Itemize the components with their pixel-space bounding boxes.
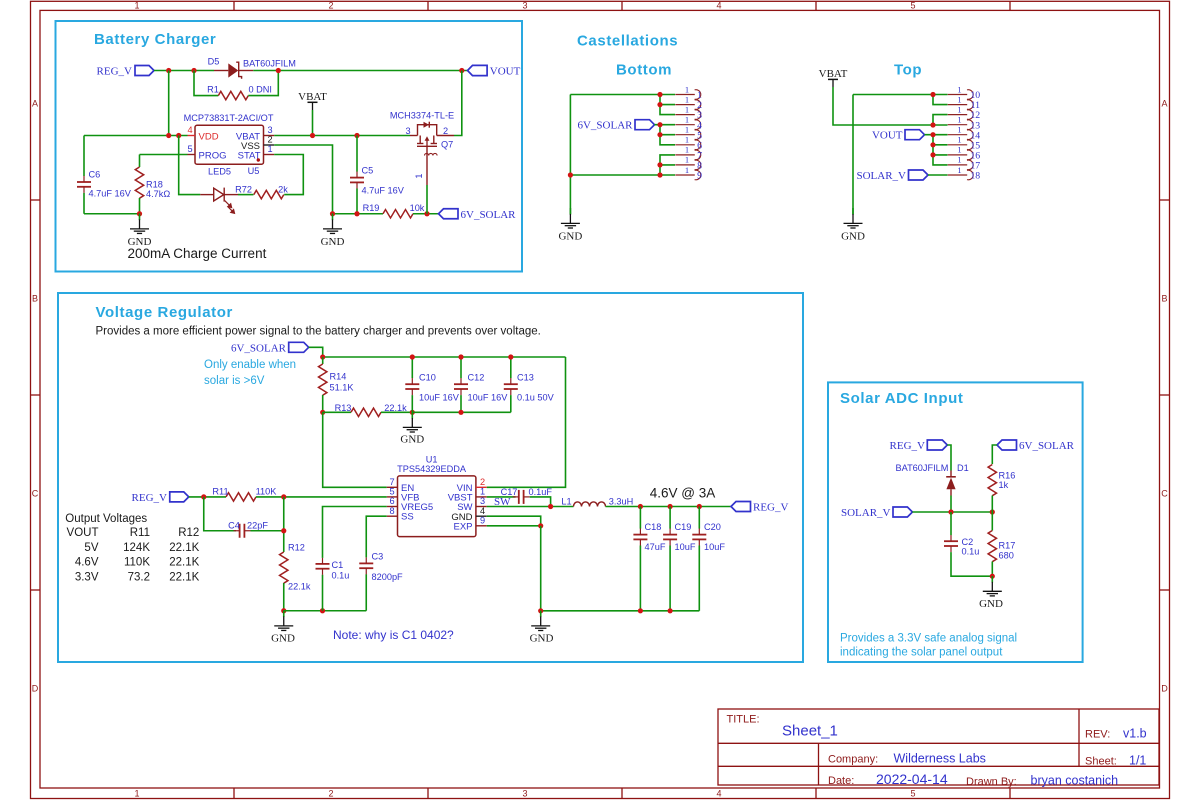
svg-text:1: 1 (685, 115, 689, 125)
pin 4 VDD of U5 (187, 125, 218, 142)
svg-text:GND: GND (271, 633, 295, 645)
node junction C19 bottom (668, 608, 673, 613)
wire REG_V to R11 (189, 496, 226, 498)
connector pin 16 top (948, 145, 981, 162)
wire REG_V to D5 (154, 70, 214, 72)
title block (718, 709, 1159, 785)
svg-text:0.1u 50V: 0.1u 50V (517, 393, 555, 403)
svg-text:5: 5 (389, 487, 394, 497)
svg-text:R1: R1 (207, 85, 219, 95)
node junction REG_V C4 branch (201, 494, 206, 499)
svg-text:4: 4 (716, 789, 721, 799)
wire D1 to SOLAR_V node (950, 496, 952, 513)
pin 6 VREG5 of U1 (387, 496, 434, 513)
wire REG_V down to VDD rail (168, 71, 170, 136)
pin 2 VSS of U5 (241, 135, 274, 152)
node junction R12 top (281, 528, 286, 533)
node junction gate drop (424, 211, 429, 216)
ground GND1 (128, 213, 152, 248)
op-amp U5 MCP73831 body (184, 113, 274, 176)
net flag VOUT castellation (872, 130, 925, 142)
ground GND solar (979, 576, 1003, 610)
svg-text:B: B (32, 294, 38, 304)
wire D5 to VOUT (253, 70, 467, 72)
wire bottom pins 4-6 bus (655, 122, 676, 145)
wire bottom pins 1-3 bus (657, 92, 675, 115)
svg-text:18: 18 (970, 171, 980, 182)
node junction GND2 (330, 211, 335, 216)
svg-text:R17: R17 (999, 541, 1016, 551)
node junction C12 top (458, 354, 463, 359)
node junction VFB divider (281, 494, 286, 499)
svg-text:1: 1 (480, 487, 485, 497)
svg-text:REG_V: REG_V (753, 502, 789, 514)
wire C4 to R12 node (251, 497, 284, 552)
connector pin 5 bottom (675, 125, 702, 142)
connector pin 6 bottom (675, 135, 702, 152)
capacitor C20 10uF (692, 507, 725, 611)
svg-text:1: 1 (134, 1, 139, 11)
transistor Q2 MCH3374 (390, 111, 454, 186)
capacitor C3 8200pF (359, 516, 403, 611)
svg-text:1: 1 (957, 165, 961, 175)
svg-text:3.3uH: 3.3uH (609, 497, 634, 507)
node junction at R1 branch right (276, 68, 281, 73)
svg-text:C13: C13 (517, 373, 534, 383)
ground GND2 (321, 213, 345, 248)
net flag REG_V regulator output (731, 502, 789, 514)
wire left gnd rail (284, 610, 367, 612)
wire Q7 gate to junction (426, 185, 428, 214)
svg-text:1: 1 (685, 94, 689, 104)
inductor L1 3.3uH (561, 497, 633, 507)
svg-text:VBAT: VBAT (819, 68, 848, 80)
wire 6V_SOLAR to R16 (992, 445, 997, 464)
svg-text:3: 3 (405, 126, 410, 136)
node junction at VOUT branch (459, 68, 464, 73)
node junction EXP (538, 523, 543, 528)
net flag 6V_SOLAR battery (439, 209, 517, 221)
svg-text:MCH3374-TL-E: MCH3374-TL-E (390, 111, 454, 121)
resistor R12 22.1k (280, 543, 311, 611)
svg-text:6V_SOLAR: 6V_SOLAR (231, 342, 287, 354)
svg-text:VOUT: VOUT (872, 130, 903, 142)
resistor R13 22.1k (323, 403, 413, 416)
svg-text:5: 5 (910, 1, 915, 11)
svg-text:Sheet_1: Sheet_1 (782, 723, 838, 740)
resistor R1 0 DNI (207, 85, 272, 100)
svg-text:3: 3 (480, 496, 485, 506)
wire divider to EN (323, 412, 387, 487)
wire R11 to VFB (256, 496, 387, 498)
svg-text:VBAT: VBAT (298, 91, 327, 103)
ground GND bottom castellation (558, 208, 582, 243)
net flag VOUT (468, 65, 521, 77)
wire LED to R72 (238, 194, 254, 196)
resistor R72 2k (235, 185, 288, 199)
svg-text:VOUT: VOUT (490, 66, 521, 78)
svg-text:4: 4 (187, 125, 192, 135)
svg-text:C3: C3 (372, 552, 384, 562)
node junction VBAT drop (310, 133, 315, 138)
svg-text:10k: 10k (410, 203, 425, 213)
wire bottom connector left bus (570, 95, 675, 215)
svg-text:R12: R12 (288, 543, 305, 553)
svg-text:0.1u: 0.1u (332, 571, 350, 581)
svg-text:1: 1 (685, 135, 689, 145)
svg-text:GND: GND (558, 231, 582, 243)
svg-text:LED5: LED5 (208, 167, 231, 177)
node junction at REG_V branch (166, 68, 171, 73)
svg-text:GND: GND (530, 633, 554, 645)
svg-text:Note: why is C1 0402?: Note: why is C1 0402? (333, 628, 454, 642)
svg-text:6: 6 (389, 496, 394, 506)
net flag SOLAR_V solar (841, 507, 912, 519)
pin 9 EXP of U1 (453, 516, 486, 533)
resistor R17 680 (988, 512, 1015, 576)
capacitor C12 (454, 357, 508, 412)
wire VDD rail (84, 135, 188, 137)
wire VBAT to pin13 (833, 87, 933, 125)
Castellations heading (577, 33, 678, 50)
wire C17 to SW node (530, 497, 551, 507)
svg-text:0.1u: 0.1u (962, 547, 980, 557)
svg-text:5: 5 (187, 144, 192, 154)
capacitor C6 (77, 136, 132, 214)
svg-text:Battery Charger: Battery Charger (94, 31, 216, 48)
node junction C20 top (697, 504, 702, 509)
svg-text:1: 1 (685, 155, 689, 165)
svg-text:2: 2 (268, 135, 273, 145)
svg-text:R14: R14 (330, 372, 347, 382)
svg-text:22.1k: 22.1k (288, 582, 311, 592)
svg-text:22pF: 22pF (247, 520, 268, 530)
svg-text:22.1K: 22.1K (169, 542, 199, 554)
svg-text:110K: 110K (124, 557, 150, 569)
svg-text:1: 1 (685, 165, 689, 175)
wire Q7 source to VOUT rail (454, 71, 462, 136)
power symbol VBAT castellation (819, 68, 848, 87)
Solar ADC Input section box (828, 382, 1083, 662)
svg-text:Bottom: Bottom (616, 62, 672, 79)
svg-text:R12: R12 (178, 527, 199, 539)
wire PROG to R18 (140, 154, 188, 156)
text output voltages table (65, 513, 199, 584)
wire R1 branch left (194, 71, 218, 96)
wire VBAT rail right (274, 135, 410, 137)
svg-text:C: C (1161, 489, 1168, 499)
svg-text:Only enable when: Only enable when (204, 359, 296, 371)
svg-text:GND: GND (841, 231, 865, 243)
pin 5 VFB of U1 (387, 487, 420, 504)
node junction C18 bottom (638, 608, 643, 613)
svg-text:1: 1 (957, 84, 961, 94)
net flag REG_V (97, 66, 154, 78)
svg-text:MCP73831T-2ACI/OT: MCP73831T-2ACI/OT (184, 113, 274, 123)
svg-text:4.7kΩ: 4.7kΩ (146, 189, 170, 199)
svg-text:C19: C19 (675, 522, 692, 532)
svg-text:Drawn By:: Drawn By: (966, 776, 1017, 788)
pin 2 VIN of U1 (457, 477, 487, 494)
connector pin 8 bottom (675, 155, 702, 172)
net flag REG_V solar (890, 440, 948, 452)
node junction C1 bottom (320, 608, 325, 613)
svg-text:Provides a 3.3V safe analog si: Provides a 3.3V safe analog signal (840, 632, 1017, 644)
svg-text:A: A (32, 99, 38, 109)
wire REG_V to D1 (947, 445, 951, 471)
svg-text:0.1uF: 0.1uF (529, 487, 553, 497)
connector pin 10 top (948, 84, 981, 101)
wire 6V_SOLAR to top rail (309, 347, 323, 357)
svg-text:C18: C18 (645, 522, 662, 532)
svg-text:1: 1 (957, 135, 961, 145)
svg-text:Company:: Company: (828, 754, 878, 766)
svg-text:C6: C6 (89, 170, 101, 180)
svg-text:C5: C5 (362, 166, 374, 176)
text note C1 (333, 628, 454, 642)
svg-text:22.1K: 22.1K (169, 571, 199, 583)
svg-text:2: 2 (328, 789, 333, 799)
svg-text:REG_V: REG_V (97, 66, 133, 78)
resistor R16 1k (988, 465, 1015, 513)
svg-text:EXP: EXP (453, 522, 472, 533)
text only-enable note (204, 359, 296, 387)
power symbol VBAT (298, 91, 327, 110)
pin 1 STAT of U5 (238, 144, 275, 161)
svg-text:Date:: Date: (828, 775, 854, 787)
capacitor C13 (504, 357, 555, 412)
wire top pins 14-17 (925, 132, 948, 165)
ground GND top castellation (841, 208, 865, 243)
capacitor C17 0.1uF (501, 487, 553, 504)
svg-text:3.3V: 3.3V (75, 571, 99, 583)
svg-text:4.7uF 16V: 4.7uF 16V (89, 189, 132, 199)
svg-text:C12: C12 (468, 373, 485, 383)
node junction VDD rail at REG_V (166, 133, 171, 138)
svg-text:R13: R13 (335, 403, 352, 413)
pin 3 SW of U1 (457, 496, 487, 513)
capacitor C2 0.1u (944, 512, 992, 576)
pin 1 VBST of U1 (448, 487, 487, 504)
svg-text:U5: U5 (248, 166, 260, 176)
svg-text:6V_SOLAR: 6V_SOLAR (1019, 440, 1075, 452)
svg-text:9: 9 (697, 171, 702, 182)
Bottom heading (616, 62, 672, 79)
svg-text:0 DNI: 0 DNI (249, 85, 273, 95)
svg-text:Solar ADC Input: Solar ADC Input (840, 390, 963, 407)
wire VSS to GND2 (274, 145, 332, 214)
svg-text:1: 1 (414, 173, 424, 178)
svg-text:73.2: 73.2 (128, 571, 150, 583)
diode D5 BAT60JFILM (208, 57, 296, 79)
svg-text:D: D (1161, 684, 1168, 694)
node SW label (494, 496, 511, 508)
connector pin 3 bottom (675, 104, 702, 121)
wire EXP down to gnd rail (540, 526, 542, 611)
net flag 6V_SOLAR solar (997, 440, 1075, 452)
svg-text:110K: 110K (256, 486, 278, 496)
pin 7 EN of U1 (387, 477, 415, 494)
svg-text:R19: R19 (363, 203, 380, 213)
wire top pins 10-11 (930, 92, 947, 105)
svg-text:3: 3 (522, 789, 527, 799)
ground GND regulator left (271, 610, 295, 644)
svg-text:1: 1 (957, 104, 961, 114)
svg-text:A: A (1161, 99, 1167, 109)
capacitor C5 (350, 136, 405, 214)
svg-text:2022-04-14: 2022-04-14 (876, 771, 948, 787)
svg-text:1: 1 (685, 145, 689, 155)
svg-text:C1: C1 (332, 560, 344, 570)
svg-text:R18: R18 (146, 180, 163, 190)
node junction gnd rail left (538, 608, 543, 613)
pin 4 GND of U1 (451, 506, 486, 523)
svg-text:680: 680 (999, 550, 1014, 560)
svg-text:R72: R72 (235, 185, 252, 195)
node junction C5 top (354, 133, 359, 138)
capacitor C1 0.1u (316, 507, 387, 611)
svg-text:10uF 16V: 10uF 16V (419, 393, 460, 403)
svg-text:B: B (1161, 294, 1167, 304)
node junction C18 top (638, 504, 643, 509)
node dot near STAT (257, 158, 260, 161)
pin 3 VBAT of U5 (236, 125, 274, 142)
wire VBAT down to rail (312, 110, 314, 136)
node junction bottom pin9 row (568, 172, 573, 177)
resistor R11 110K (212, 486, 277, 501)
svg-text:bryan costanich: bryan costanich (1031, 774, 1119, 788)
svg-text:2k: 2k (278, 185, 288, 195)
svg-text:Q7: Q7 (441, 140, 453, 150)
svg-text:GND: GND (321, 236, 345, 248)
svg-text:TITLE:: TITLE: (727, 714, 760, 726)
svg-text:Provides a more efficient powe: Provides a more efficient power signal t… (96, 326, 541, 338)
svg-text:1/1: 1/1 (1129, 754, 1146, 768)
net flag 6V_SOLAR castellation (577, 120, 654, 132)
capacitor C18 47uF (633, 507, 665, 611)
node junction D1 anode (948, 509, 953, 514)
svg-text:Sheet:: Sheet: (1085, 756, 1117, 768)
wire VBST to C17 (487, 496, 516, 498)
connector pin 11 top (948, 94, 980, 111)
svg-text:TPS54329EDDA: TPS54329EDDA (397, 464, 467, 474)
wire EXP pin (487, 525, 541, 527)
svg-text:BAT60JFILM: BAT60JFILM (896, 463, 949, 473)
wire caps bottom rail (412, 410, 511, 415)
wire R72 to STAT (274, 155, 303, 195)
svg-text:1: 1 (685, 104, 689, 114)
svg-text:51.1K: 51.1K (330, 383, 355, 393)
svg-text:200mA Charge Current: 200mA Charge Current (128, 246, 267, 261)
svg-text:4.6V: 4.6V (75, 557, 99, 569)
node junction R16 bottom (990, 509, 995, 514)
Top heading (894, 62, 922, 79)
svg-text:8200pF: 8200pF (372, 572, 404, 582)
svg-text:GND: GND (979, 598, 1003, 610)
svg-text:SS: SS (401, 512, 414, 523)
svg-text:GND: GND (400, 434, 424, 446)
resistor R14 51.1K (319, 357, 355, 412)
diode D1 BAT60JFILM (896, 463, 969, 496)
svg-text:1: 1 (685, 125, 689, 135)
svg-text:6V_SOLAR: 6V_SOLAR (461, 209, 517, 221)
svg-text:Output Voltages: Output Voltages (65, 513, 147, 525)
svg-text:REG_V: REG_V (890, 440, 926, 452)
svg-text:1: 1 (268, 144, 273, 154)
connector pin 12 top (948, 104, 981, 121)
svg-text:Top: Top (894, 62, 922, 79)
capacitor C19 10uF (663, 507, 696, 611)
node junction R12 bottom (281, 608, 286, 613)
node junction VDD rail at LED branch (176, 133, 181, 138)
svg-text:1k: 1k (999, 480, 1009, 490)
svg-text:C20: C20 (704, 522, 721, 532)
svg-text:22.1k: 22.1k (384, 403, 407, 413)
svg-text:7: 7 (389, 477, 394, 487)
wire top rail down to VIN (487, 357, 566, 487)
svg-text:SOLAR_V: SOLAR_V (841, 507, 891, 519)
svg-text:Voltage Regulator: Voltage Regulator (96, 304, 233, 321)
text solar caption (840, 632, 1017, 658)
svg-text:8: 8 (389, 506, 394, 516)
svg-text:1: 1 (134, 789, 139, 799)
svg-text:1: 1 (957, 155, 961, 165)
wire L1 to REG_V out (606, 506, 732, 508)
connector pin 17 top (948, 155, 981, 172)
wire R19 to 6V_SOLAR (413, 213, 439, 215)
svg-text:PROG: PROG (199, 150, 227, 161)
svg-text:Castellations: Castellations (577, 33, 678, 50)
svg-text:3: 3 (522, 1, 527, 11)
svg-text:1: 1 (957, 94, 961, 104)
svg-text:1: 1 (685, 84, 689, 94)
wire SOLAR_V to pin18 (928, 174, 948, 176)
wire SOLAR_V node (912, 511, 992, 513)
node junction C10 top (410, 354, 415, 359)
svg-text:22.1K: 22.1K (169, 557, 199, 569)
capacitor C4 22pF (228, 520, 268, 537)
svg-text:124K: 124K (123, 542, 150, 554)
connector pin 7 bottom (675, 145, 702, 162)
node junction R14-R13 (320, 410, 325, 415)
ground GND regulator top (400, 412, 424, 446)
pin 5 PROG of U5 (187, 144, 226, 161)
Battery Charger section box (56, 21, 523, 272)
svg-text:4.7uF 16V: 4.7uF 16V (362, 186, 405, 196)
node junction at R1 branch left (191, 68, 196, 73)
svg-text:D1: D1 (957, 463, 969, 473)
node junction GND1 (137, 211, 142, 216)
svg-text:1: 1 (957, 125, 961, 135)
node junction R17 bottom (990, 574, 995, 579)
svg-text:4.6V @ 3A: 4.6V @ 3A (650, 486, 716, 501)
connector pin 13 top (948, 115, 981, 132)
connector pin 4 bottom (675, 115, 702, 132)
connector pin 15 top (948, 135, 981, 152)
text output rating (650, 486, 716, 501)
svg-text:3: 3 (268, 125, 273, 135)
connector pin 9 bottom (675, 165, 702, 182)
node junction top rail R14 (320, 354, 325, 359)
svg-text:R11: R11 (130, 527, 150, 539)
pin 8 SS of U1 (387, 506, 414, 523)
svg-text:v1.b: v1.b (1123, 727, 1147, 741)
svg-text:C4: C4 (228, 520, 240, 530)
svg-text:SOLAR_V: SOLAR_V (856, 170, 906, 182)
svg-text:2: 2 (328, 1, 333, 11)
wire R1 branch right (248, 71, 278, 96)
net flag SOLAR_V castellation (856, 170, 928, 182)
